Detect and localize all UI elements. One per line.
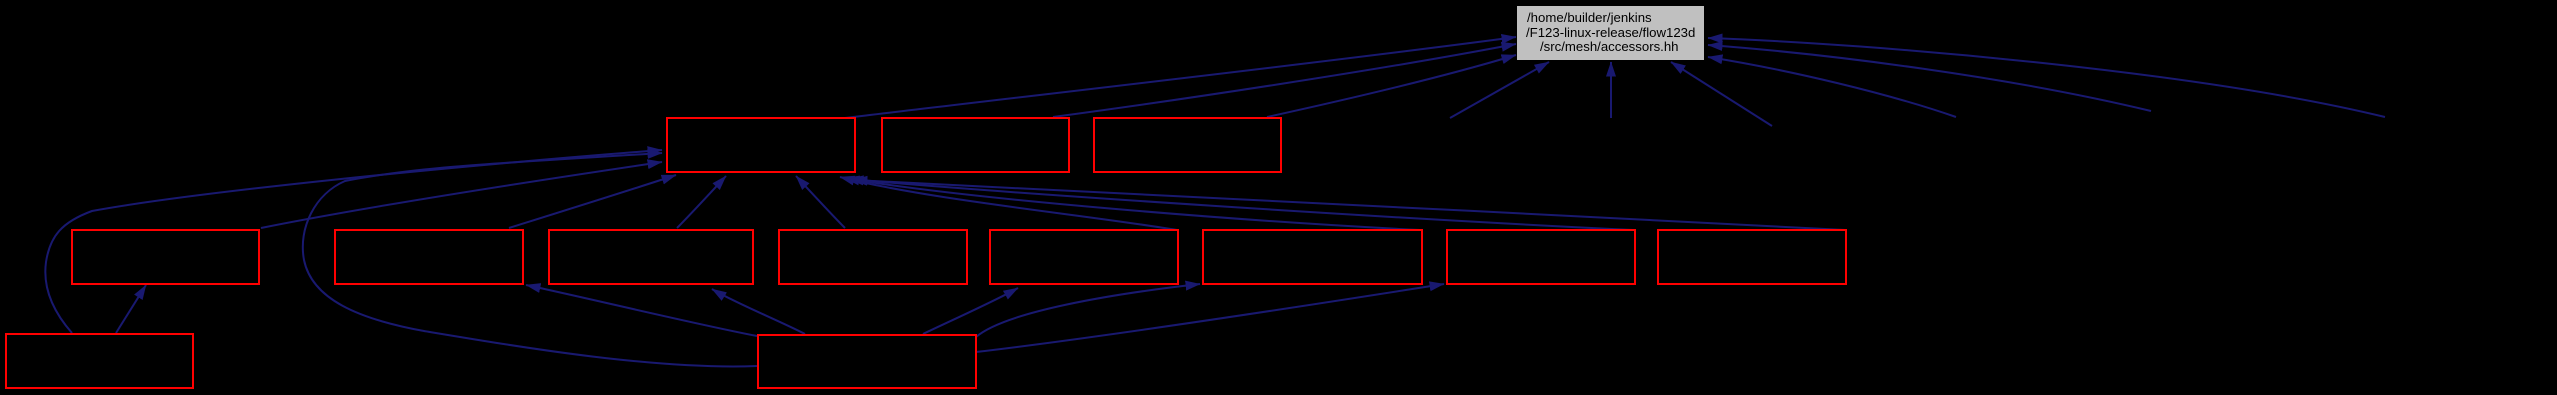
edge: node W -> node R3 <box>712 289 805 334</box>
edge: clipped node -> node U (right mid-air 2) <box>1708 45 2151 111</box>
node R1 (row2 box 1) <box>72 230 259 284</box>
node L (bottom-left box) <box>6 334 193 388</box>
edge: clipped node -> node U (right mid-air 3) <box>1708 38 2385 117</box>
node A (row1 hub box) <box>667 118 855 172</box>
edge: node R5 -> node A <box>840 177 1177 230</box>
edge: node R1 -> node A <box>261 162 662 228</box>
edge: node A -> node U <box>845 37 1516 118</box>
svg-text:/F123-linux-release/flow123d: /F123-linux-release/flow123d <box>1526 25 1695 40</box>
edge: node R8 -> node A <box>853 180 1845 230</box>
svg-text:/src/mesh/accessors.hh: /src/mesh/accessors.hh <box>1540 39 1679 54</box>
edge: node L -> node R1 <box>116 285 146 333</box>
edge: node W -> node R5 <box>923 288 1018 334</box>
node C (row1 box 3) <box>1094 118 1281 172</box>
edge: node R6 -> node A <box>845 178 1420 230</box>
edge: node R4 -> node A <box>796 176 845 228</box>
node R5 (row2 box 5) <box>990 230 1178 284</box>
edge: node R3 -> node A <box>677 176 726 228</box>
edge: node C -> node U <box>1267 55 1516 117</box>
node R8 (row2 box 8) <box>1658 230 1846 284</box>
edge: node W -> node R2 <box>526 285 757 336</box>
node B (row1 box 2) <box>882 118 1069 172</box>
edge beta: node W -> node A (sweep around lower-left) <box>303 153 757 366</box>
node R2 (row2 box 2) <box>335 230 523 284</box>
svg-text:/home/builder/jenkins: /home/builder/jenkins <box>1527 10 1652 25</box>
edge: node W -> node R6 <box>976 284 1200 337</box>
node R7 (row2 box 7) <box>1447 230 1635 284</box>
edge alpha: node L -> node A (big left sweep curve) <box>45 150 662 333</box>
node R4 (row2 box 4) <box>779 230 967 284</box>
edge: node W -> node R7 <box>976 284 1444 352</box>
edge: node R7 -> node A <box>849 179 1633 230</box>
edge: clipped node -> node U (bottom mid-air, vertical) <box>1610 62 1612 118</box>
edge: clipped node -> node U (bottom-right mid-air) <box>1671 62 1772 126</box>
node W (bottom-center box) <box>758 335 976 388</box>
edge: node B -> node U <box>1053 44 1516 117</box>
edge: clipped node -> node U (right mid-air 1) <box>1708 57 1956 117</box>
edge: node R2 -> node A <box>509 175 676 228</box>
node R3 (row2 box 3) <box>549 230 753 284</box>
edge: clipped node -> node U (bottom-left mid-air) <box>1450 62 1549 118</box>
node U: /home/builder/jenkins/F123-linux-release/flow123d/src/mesh/accessors.hh <box>1517 6 1704 60</box>
node R6 (row2 box 6) <box>1203 230 1422 284</box>
